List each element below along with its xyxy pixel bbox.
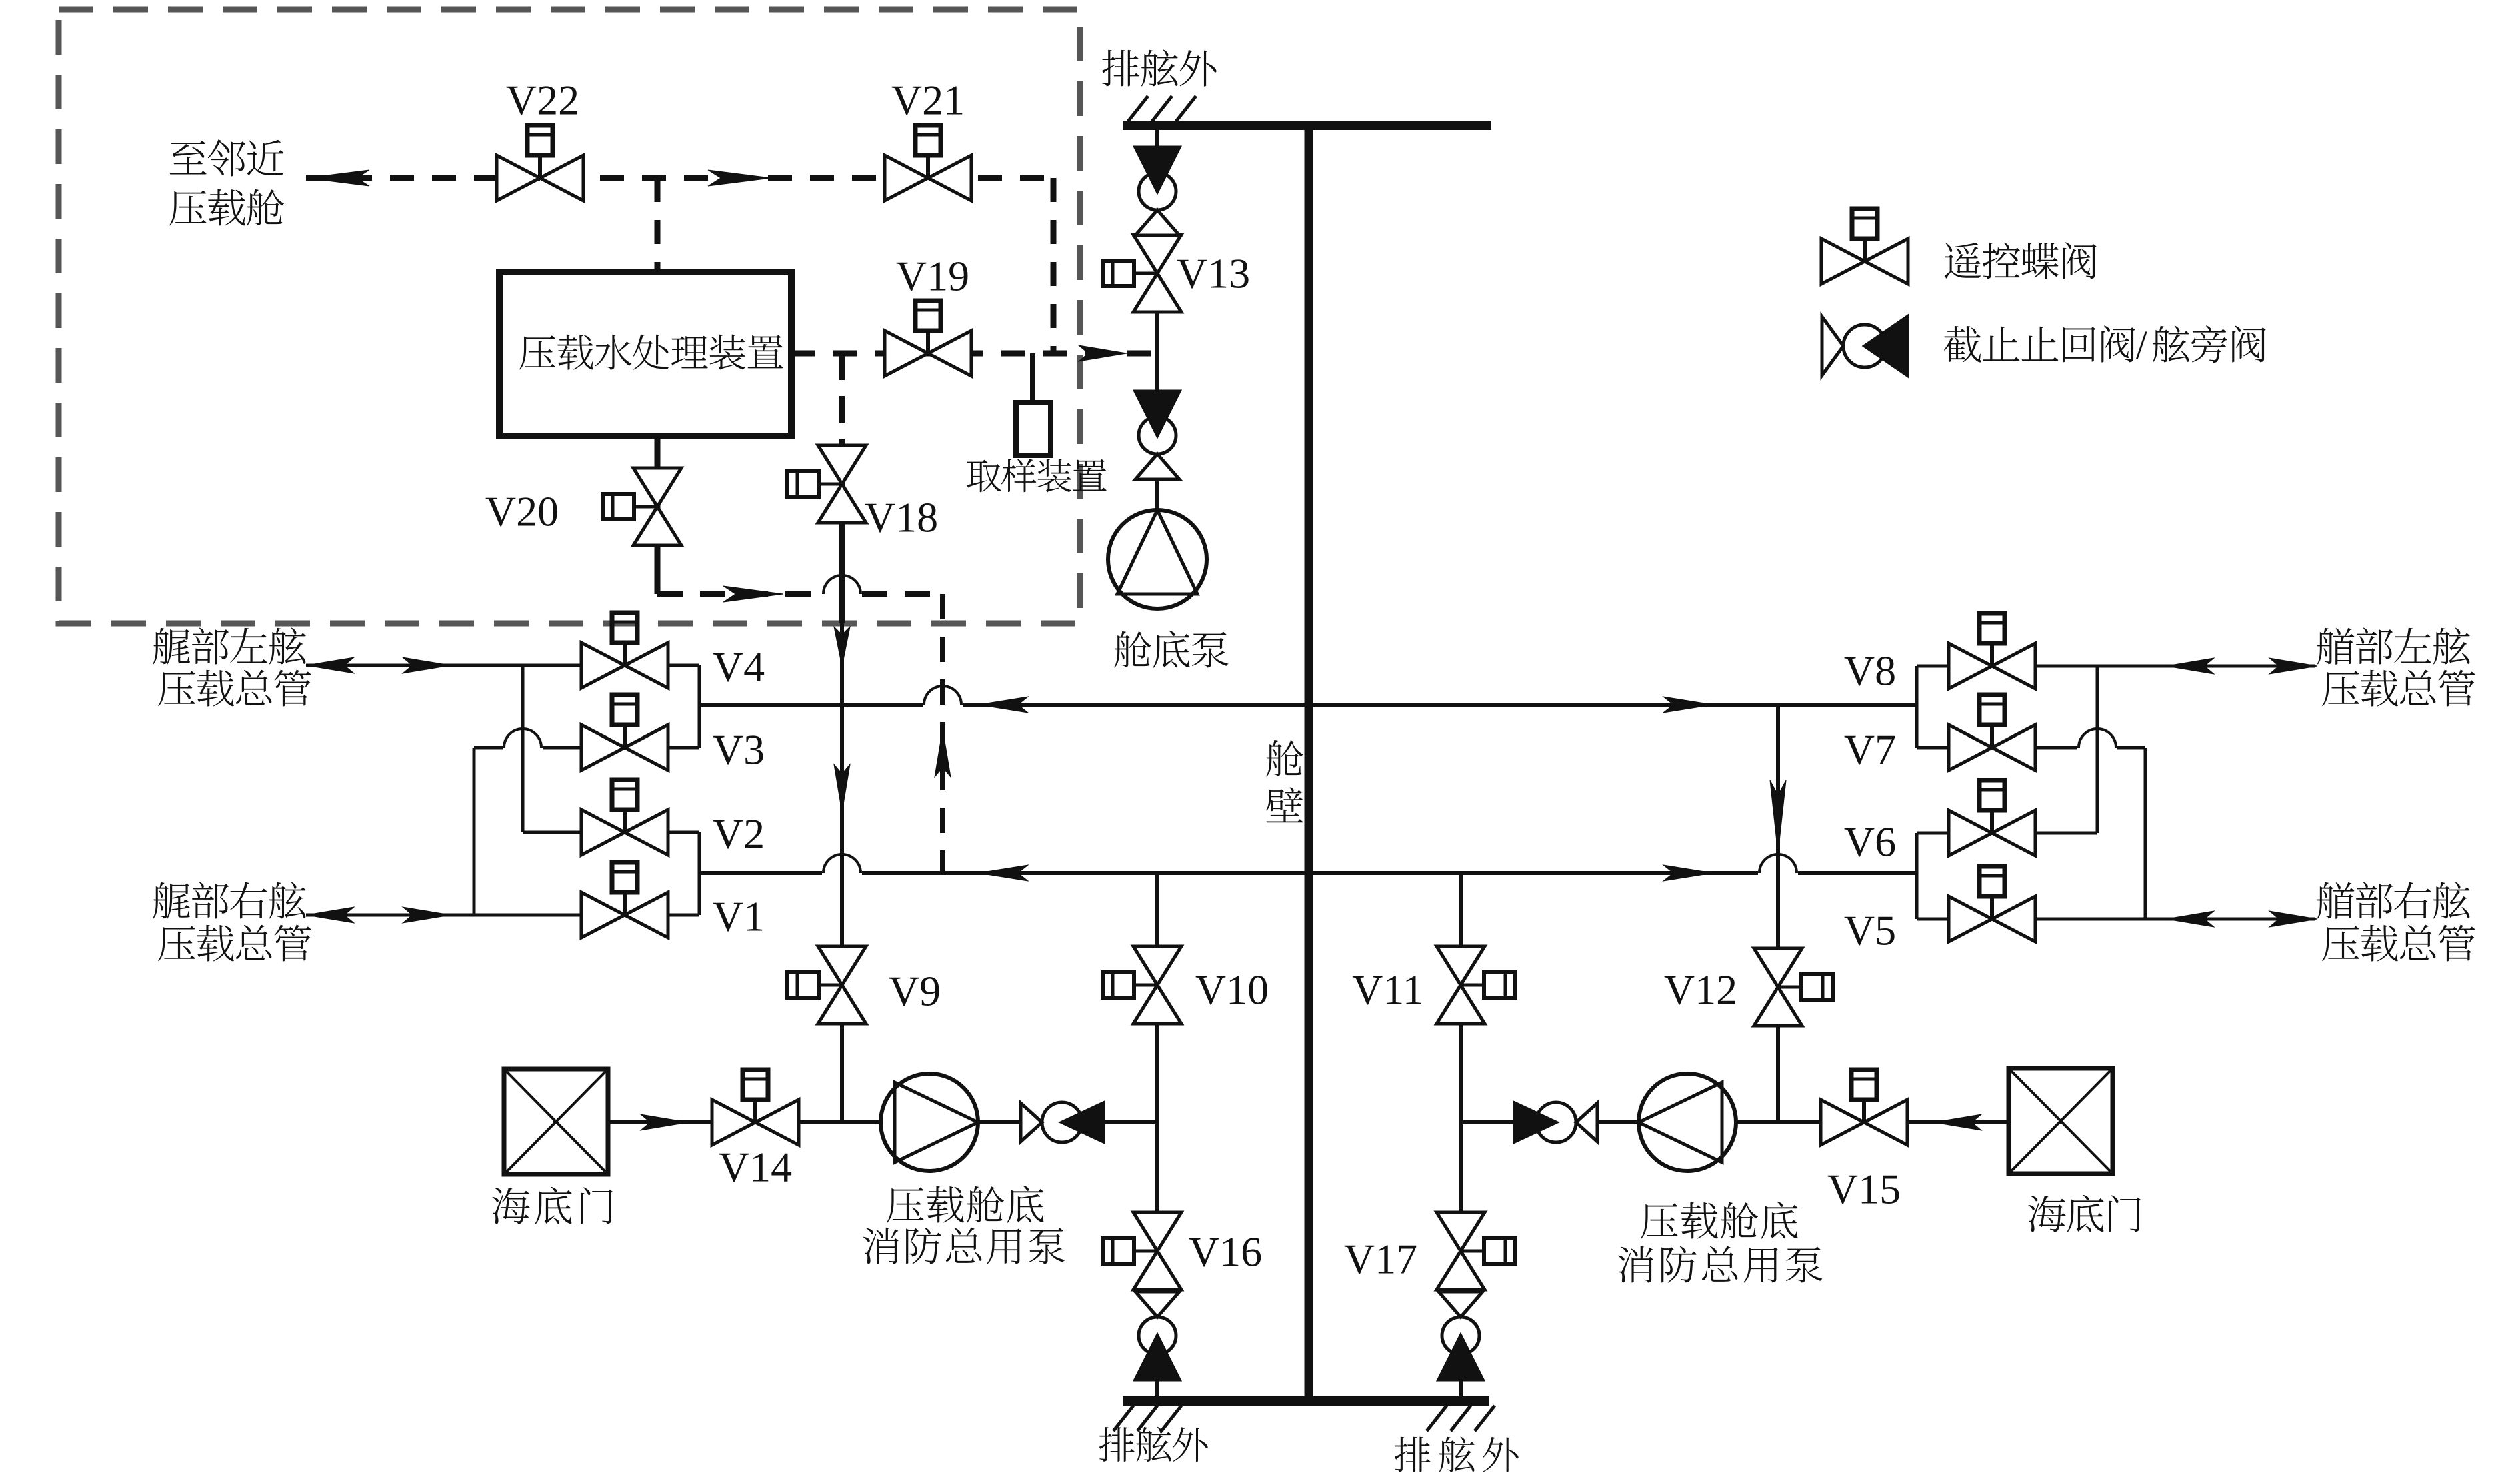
svg-text:V3: V3 bbox=[713, 726, 765, 774]
svg-text:V14: V14 bbox=[719, 1144, 792, 1191]
svg-text:V22: V22 bbox=[506, 77, 579, 124]
svg-text:V21: V21 bbox=[891, 77, 965, 124]
svg-text:V1: V1 bbox=[713, 893, 765, 940]
svg-text:V20: V20 bbox=[485, 488, 559, 535]
svg-text:V19: V19 bbox=[896, 253, 969, 300]
svg-text:V4: V4 bbox=[713, 643, 765, 691]
svg-text:V15: V15 bbox=[1827, 1166, 1901, 1213]
svg-text:V16: V16 bbox=[1189, 1228, 1262, 1276]
svg-text:V12: V12 bbox=[1664, 966, 1737, 1014]
svg-text:V2: V2 bbox=[713, 810, 765, 858]
svg-text:V8: V8 bbox=[1844, 647, 1896, 695]
svg-text:V5: V5 bbox=[1844, 907, 1896, 954]
svg-text:V6: V6 bbox=[1844, 818, 1896, 866]
svg-text:V13: V13 bbox=[1177, 250, 1250, 297]
svg-text:V18: V18 bbox=[865, 494, 938, 541]
svg-text:V17: V17 bbox=[1344, 1236, 1417, 1283]
svg-text:V7: V7 bbox=[1844, 726, 1896, 774]
svg-text:V11: V11 bbox=[1352, 966, 1424, 1014]
svg-text:/: / bbox=[2136, 323, 2147, 367]
svg-text:V10: V10 bbox=[1195, 966, 1269, 1014]
svg-text:V9: V9 bbox=[889, 968, 941, 1015]
